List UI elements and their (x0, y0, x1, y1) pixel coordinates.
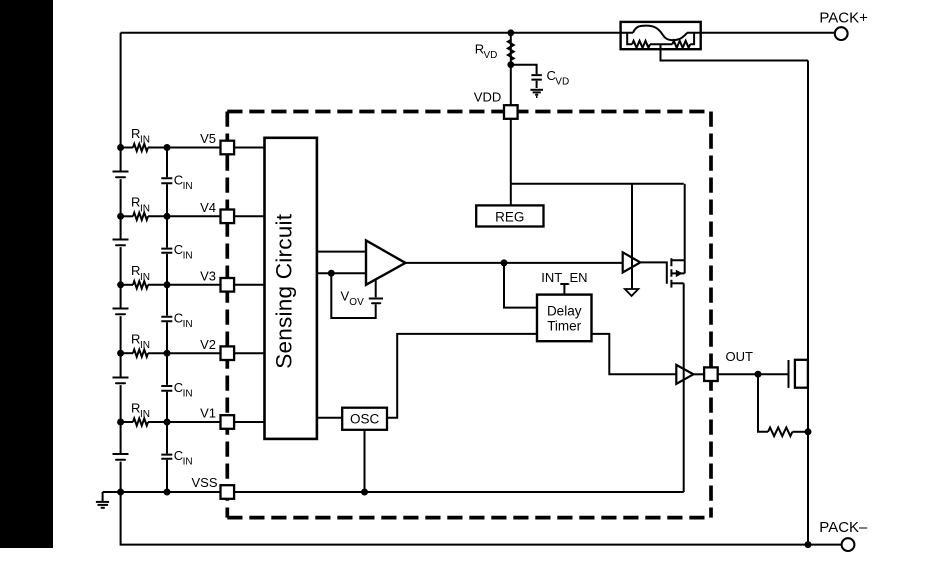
wire top rail to fuse (121, 32, 633, 34)
node comparator output junction (501, 259, 508, 266)
svg-text:OSC: OSC (350, 412, 380, 427)
wire sensing to comparator inputs (317, 252, 366, 274)
svg-text:V2: V2 (200, 337, 216, 352)
svg-text:R: R (131, 126, 140, 141)
svg-text:REG: REG (495, 209, 524, 224)
capacitor CIN (cell 1) (161, 173, 192, 192)
resistor R2 (gate-source) (758, 374, 808, 436)
regulator REG (476, 205, 543, 226)
node RVD top (507, 29, 514, 36)
svg-text:IN: IN (140, 409, 150, 420)
wire VDD supply (511, 33, 684, 206)
pin V3 (200, 268, 234, 291)
svg-text:V3: V3 (200, 268, 216, 283)
battery cell BT2 (113, 240, 129, 246)
svg-text:OV: OV (349, 297, 364, 308)
pin V5 (200, 131, 234, 154)
wire battery stack left rail (120, 33, 122, 492)
node PACK- junction (805, 541, 812, 548)
wire right rail (fuse heater to PACK-) (807, 61, 809, 545)
svg-text:PACK–: PACK– (819, 519, 868, 536)
battery cell BT5 (113, 454, 129, 460)
battery cell BT3 (113, 309, 129, 315)
node RVD bottom (507, 61, 514, 68)
fuse F1 (self-control protector) (621, 22, 701, 49)
battery cell BT4 (113, 378, 129, 384)
svg-text:IN: IN (183, 319, 193, 330)
wire V4 to IC (167, 215, 265, 217)
wire fuse heater tap (661, 44, 809, 60)
svg-text:INT_EN: INT_EN (541, 270, 587, 285)
svg-text:IN: IN (183, 389, 193, 400)
wire V1 to IC (167, 421, 265, 423)
svg-text:R: R (131, 263, 140, 278)
pin VSS (191, 475, 234, 499)
pin V2 (200, 337, 234, 360)
svg-text:VD: VD (555, 77, 569, 88)
capacitor CIN (cell 5) (161, 448, 192, 467)
node battery tap 216 (117, 213, 124, 220)
wire sensing to OSC (317, 417, 342, 419)
wire V3 to IC (167, 284, 265, 286)
svg-text:V5: V5 (200, 131, 216, 146)
node battery tap 285 (117, 281, 124, 288)
transistor Q2 (external discharge FET) (789, 360, 808, 388)
pin OUT (704, 349, 753, 381)
svg-text:IN: IN (140, 272, 150, 283)
node OUT junction (755, 371, 762, 378)
svg-text:IN: IN (183, 457, 193, 468)
svg-text:R: R (131, 400, 140, 415)
capacitor CVD (511, 65, 569, 88)
svg-text:VD: VD (484, 50, 498, 61)
pin VDD (474, 89, 518, 118)
svg-text:OUT: OUT (726, 349, 754, 364)
wire OSC to VSS (364, 430, 366, 492)
capacitor CIN (cell 2) (161, 242, 192, 261)
node PACK+ terminal (819, 10, 868, 40)
voltage source VOV (331, 273, 383, 318)
svg-text:IN: IN (183, 251, 193, 262)
oscillator OSC (342, 408, 387, 430)
svg-text:V1: V1 (200, 406, 216, 421)
svg-text:IN: IN (183, 181, 193, 192)
ground (CVD earth symbol) (530, 90, 543, 97)
op-amp U1 sensing circuit block (265, 138, 317, 439)
svg-text:Timer: Timer (547, 319, 581, 334)
capacitor CIN (cell 3) (161, 311, 192, 330)
wire bottom rail to PACK- (121, 492, 842, 545)
pin V1 (200, 406, 234, 429)
node R2-source junction (805, 428, 812, 435)
svg-text:V: V (341, 289, 350, 304)
delay timer U4 (537, 295, 592, 342)
wire comparator output (405, 262, 622, 264)
resistor RIN (V1 input) (121, 400, 167, 425)
wire VSS net (103, 491, 684, 493)
node battery tap 492 (117, 489, 124, 496)
wire delay timer to output buffer (592, 334, 677, 374)
buffer U3 gate driver (623, 252, 641, 272)
wire buffer to OUT pin (693, 373, 704, 375)
svg-text:IN: IN (140, 135, 150, 146)
svg-text:Delay: Delay (547, 304, 582, 319)
battery cell BT1 (113, 172, 129, 178)
wire CIN column (166, 148, 168, 493)
ground (left earth symbol) (96, 492, 109, 508)
svg-text:IN: IN (140, 203, 150, 214)
node INT_EN test pin (541, 270, 587, 295)
node battery tap 353 (117, 350, 124, 357)
wire OSC to delay timer (387, 334, 537, 418)
transistor Q1 (internal FET) (640, 184, 684, 288)
IC dashed boundary (227, 112, 711, 518)
wire OUT to Q2 gate (718, 373, 789, 375)
resistor RIN (V3 input) (121, 263, 167, 288)
wire fuse to PACK+ (687, 32, 835, 34)
wire V2 to IC (167, 352, 265, 354)
buffer U5 output driver (676, 365, 693, 384)
resistor RIN (V4 input) (121, 195, 167, 220)
node comparator inverting input (328, 270, 335, 277)
svg-text:Sensing Circuit: Sensing Circuit (272, 213, 297, 368)
resistor RVD (475, 40, 514, 61)
resistor RIN (V2 input) (121, 332, 167, 357)
wire comparator to delay timer (504, 263, 537, 308)
svg-text:VSS: VSS (191, 475, 217, 490)
wire V5 to IC (167, 147, 265, 149)
wire Q1 source to VSS rail (683, 283, 685, 492)
svg-text:PACK+: PACK+ (819, 10, 868, 27)
capacitor CIN (cell 4) (161, 380, 192, 399)
ground (open arrow below buffer U3) (625, 289, 638, 296)
svg-text:R: R (131, 195, 140, 210)
node OSC-VSS junction (361, 489, 368, 496)
resistor RIN (V5 input) (121, 126, 167, 151)
wire buffer supply drop (631, 184, 633, 289)
svg-text:IN: IN (140, 340, 150, 351)
svg-text:VDD: VDD (474, 89, 501, 104)
svg-text:R: R (131, 332, 140, 347)
node battery tap 422 (117, 419, 124, 426)
op-amp U2 comparator (366, 240, 405, 284)
node PACK- terminal (819, 519, 868, 551)
node battery tap 148 (117, 144, 124, 151)
svg-text:V4: V4 (200, 200, 216, 215)
pin V4 (200, 200, 234, 223)
